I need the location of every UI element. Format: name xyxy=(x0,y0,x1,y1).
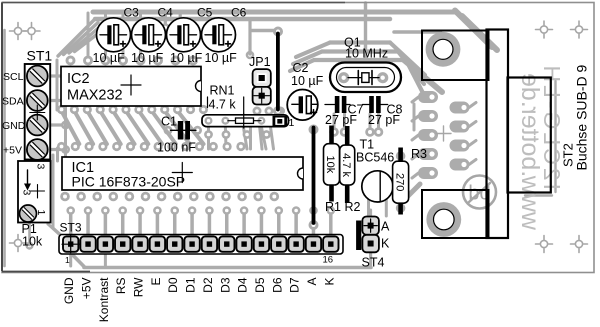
svg-text:A: A xyxy=(305,278,319,286)
capacitor C7 xyxy=(325,104,335,106)
svg-text:C5: C5 xyxy=(197,6,213,20)
pin 13 of ST3 xyxy=(271,236,286,251)
pin 14 of ST3 xyxy=(288,236,303,251)
svg-text:4.7 k: 4.7 k xyxy=(209,98,237,112)
svg-text:C1: C1 xyxy=(161,115,177,129)
svg-text:RW: RW xyxy=(132,277,146,297)
screw terminal at y=100.5 xyxy=(27,90,48,111)
connector ST2 body xyxy=(487,30,509,239)
wire: traces from IC1 to ST3 pins xyxy=(69,213,73,235)
node: wire pads for silkscreen jumpers xyxy=(273,27,283,37)
node cross IC1 xyxy=(172,172,192,174)
svg-text:RN1: RN1 xyxy=(210,84,235,98)
pin 1 of RN1 xyxy=(273,116,288,127)
pin 15 of ST3 xyxy=(306,236,321,251)
node: copper logo circle xyxy=(463,176,496,209)
svg-text:10 µF: 10 µF xyxy=(205,51,238,65)
screw terminal at y=149.5 xyxy=(27,139,48,160)
op IC1 body xyxy=(62,157,303,190)
svg-text:K: K xyxy=(381,237,390,251)
svg-text:ST4: ST4 xyxy=(362,256,385,270)
wire: left edge rail xyxy=(3,30,6,266)
wire: fan of traces between IC2 and IC1 xyxy=(62,111,80,144)
node: T1 pads xyxy=(367,192,370,216)
svg-text:T1: T1 xyxy=(360,138,375,152)
pin 4 of ST3 xyxy=(115,236,130,251)
resistor R2 xyxy=(345,126,350,145)
node cross in ST1 xyxy=(36,105,38,120)
svg-text:D1: D1 xyxy=(184,277,198,293)
svg-text:D7: D7 xyxy=(288,277,302,293)
node: fiducial BL xyxy=(14,239,21,246)
resistor R1 xyxy=(329,126,334,144)
svg-text:10k: 10k xyxy=(22,235,43,249)
pin 1 of ST3 xyxy=(63,236,78,251)
op IC2 body xyxy=(61,67,201,107)
node: P1 pads xyxy=(40,167,49,176)
pin 8 of ST3 xyxy=(184,236,199,251)
potentiometer P1 body xyxy=(18,161,51,223)
svg-text:1: 1 xyxy=(65,255,70,265)
wire: verticals below RN1 xyxy=(207,127,210,149)
pin 11 of ST3 xyxy=(236,236,251,251)
svg-text:K: K xyxy=(322,278,336,286)
svg-text:C2: C2 xyxy=(293,61,309,75)
svg-text:D3: D3 xyxy=(218,277,232,293)
pin 1 cross mark xyxy=(62,243,80,245)
pin 16 of ST3 xyxy=(323,236,338,251)
svg-text:C4: C4 xyxy=(158,6,174,20)
wire silkscreen jumper 1 xyxy=(276,34,280,110)
wire: verticals from rail to IC2 top pads xyxy=(87,13,90,55)
node: via row above IC1 xyxy=(57,142,66,151)
svg-text:BC546: BC546 xyxy=(356,151,394,165)
svg-text:10 µF: 10 µF xyxy=(131,51,164,65)
wire: top copper rail xyxy=(93,10,455,15)
svg-text:D5: D5 xyxy=(253,277,267,293)
svg-text:SDA: SDA xyxy=(2,96,24,108)
pin 12 of ST3 xyxy=(254,236,269,251)
node: fiducial BR1 xyxy=(540,240,547,247)
pin 10 of ST3 xyxy=(219,236,234,251)
svg-text:10 µF: 10 µF xyxy=(170,51,203,65)
svg-text:4.7 k: 4.7 k xyxy=(340,153,352,177)
pin 6 of ST3 xyxy=(150,236,165,251)
resistor R3 xyxy=(398,148,403,162)
svg-text:I2CLG-LH: I2CLG-LH xyxy=(539,62,565,190)
svg-text:D6: D6 xyxy=(270,277,284,293)
connector ST1 body xyxy=(25,64,51,160)
svg-text:10 MHz: 10 MHz xyxy=(345,47,388,61)
svg-text:JP1: JP1 xyxy=(249,55,271,69)
svg-text:+5V: +5V xyxy=(3,145,22,157)
pin 9 of ST3 xyxy=(202,236,217,251)
node cross IC2 xyxy=(121,84,141,86)
node: ST4 stubs xyxy=(369,210,372,217)
header ST4 xyxy=(356,221,361,251)
svg-text:R2: R2 xyxy=(345,200,361,214)
svg-text:RS: RS xyxy=(114,278,128,295)
svg-text:D0: D0 xyxy=(166,277,180,293)
svg-text:Kontrast: Kontrast xyxy=(97,277,111,322)
svg-text:ST3: ST3 xyxy=(60,221,82,235)
svg-text:C6: C6 xyxy=(231,6,247,20)
svg-text:27 pF: 27 pF xyxy=(325,113,357,127)
connector ST2 rear housing xyxy=(508,78,551,193)
wire: verticals left of IC1 down to ST3 xyxy=(47,150,50,224)
header ST3 body xyxy=(59,235,343,255)
pin 2 of ST3 xyxy=(80,236,95,251)
svg-text:+5V: +5V xyxy=(80,278,94,300)
svg-text:1: 1 xyxy=(289,117,295,129)
svg-text:MAX232: MAX232 xyxy=(67,88,123,104)
screw terminal at y=125 xyxy=(27,115,48,136)
wire: verticals under JP1 xyxy=(249,116,252,149)
connector ST2 bottom flange xyxy=(422,190,489,238)
pin 5 of ST3 xyxy=(132,236,147,251)
svg-text:27 pF: 27 pF xyxy=(368,113,400,127)
node: Q1 pads xyxy=(364,3,367,62)
svg-text:3: 3 xyxy=(35,164,47,170)
node: fiducial BR2 xyxy=(575,240,582,247)
svg-text:16: 16 xyxy=(323,255,334,266)
svg-text:R3: R3 xyxy=(411,147,427,161)
svg-text:ST1: ST1 xyxy=(27,48,53,64)
node: fiducial TL1 xyxy=(14,27,21,34)
node: gray cross near D-sub xyxy=(436,133,451,135)
pin 7 of ST3 xyxy=(167,236,182,251)
wire: ST1 diagonal bundle xyxy=(58,20,94,56)
node: via row below IC2 xyxy=(57,105,66,114)
capacitor C8 xyxy=(363,104,370,106)
node: mounting hole top xyxy=(426,32,461,67)
svg-text:GND: GND xyxy=(62,277,76,304)
wire: diagonal through top flange xyxy=(462,16,497,50)
svg-text:100 nF: 100 nF xyxy=(157,141,196,155)
svg-text:SCL: SCL xyxy=(3,71,24,83)
wire: traces near bottom flange xyxy=(404,184,420,200)
svg-text:Buchse SUB-D 9: Buchse SUB-D 9 xyxy=(574,64,590,170)
svg-text:D4: D4 xyxy=(236,277,250,293)
wire: stubs below ST3 xyxy=(69,252,72,266)
svg-text:10 µF: 10 µF xyxy=(93,51,126,65)
node: ST1 right pads and vertical join xyxy=(50,74,64,77)
node: fiducial TL2 xyxy=(28,27,35,34)
node: pads under C7 C8 xyxy=(333,114,336,128)
node: IC2 top pad row xyxy=(66,56,76,66)
svg-text:A: A xyxy=(381,220,390,234)
node: fiducial TR1 xyxy=(540,26,547,33)
svg-text:10 µF: 10 µF xyxy=(291,74,324,88)
wire: bundle right of C2 to D-sub xyxy=(296,43,330,58)
wire silkscreen jumper 2 xyxy=(312,128,316,224)
node: IC1 bottom pad row xyxy=(60,192,70,202)
node: C1 end pads xyxy=(164,126,173,135)
svg-text:GND: GND xyxy=(2,120,26,132)
svg-text:270: 270 xyxy=(393,173,405,191)
wire: bottom rail xyxy=(71,253,84,267)
node: mounting hole bottom xyxy=(426,202,461,237)
screw terminal at y=76 xyxy=(27,66,48,87)
node: pads between capacitors xyxy=(164,13,167,26)
node: R3 pads xyxy=(396,151,406,161)
svg-text:IC2: IC2 xyxy=(67,71,90,87)
svg-text:3: 3 xyxy=(21,190,33,196)
svg-text:D2: D2 xyxy=(201,277,215,293)
svg-text:C3: C3 xyxy=(124,6,140,20)
node: fiducial TR2 xyxy=(575,26,582,33)
wire: vertical right of connector xyxy=(554,81,556,192)
svg-text:1: 1 xyxy=(35,210,47,216)
connector ST2 top flange xyxy=(422,31,489,81)
svg-text:PIC 16F873-20SP: PIC 16F873-20SP xyxy=(72,174,186,190)
node: D-sub SUB-D 9 pin pads xyxy=(418,91,438,103)
pin 3 of ST3 xyxy=(98,236,113,251)
svg-text:E: E xyxy=(149,278,163,286)
svg-text:R1: R1 xyxy=(325,200,341,214)
svg-text:10k: 10k xyxy=(324,155,336,173)
